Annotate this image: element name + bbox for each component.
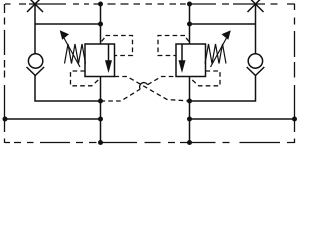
counterbalance valve CB2 body: [176, 44, 206, 77]
wire: left bottom branch: [5, 118, 101, 120]
node: left branch junction: [98, 117, 103, 122]
node: right tee: [187, 22, 192, 27]
CB1 pilot loop (dashed): [102, 36, 133, 56]
wire: left feed line: [100, 4, 102, 44]
pilot line P2 from left port to CB2 (dashed, with crossover hop): [101, 77, 177, 102]
CB2 pilot loop (dashed): [158, 36, 189, 56]
node: right bottom junction: [187, 140, 192, 145]
wire: right feed line: [189, 4, 191, 44]
plugged port X left: [27, 0, 43, 12]
CB2 flow path arrow: [179, 44, 186, 73]
wire: right bottom branch: [190, 118, 295, 120]
CB2 drain line (dashed): [190, 71, 220, 86]
wire: right port line upper: [255, 4, 257, 54]
node: left feed top: [98, 2, 103, 7]
CB1 spring: [65, 44, 86, 64]
wire: right outlet line: [189, 77, 191, 143]
node: left tee: [98, 22, 103, 27]
check valve CV2 seat: [247, 67, 265, 76]
CB1 flow path arrow: [105, 44, 112, 73]
wire: left port line lower: [35, 76, 101, 102]
node: left pilot junction: [98, 99, 103, 104]
enclosure dashed border left: [4, 4, 6, 143]
pilot line P1 from CB1 outlet to right port (dashed): [115, 77, 190, 102]
wire: left port line upper: [34, 4, 36, 54]
node: right border branch: [292, 117, 297, 122]
plugged port X right: [248, 0, 264, 12]
node: left border branch: [3, 117, 8, 122]
node: left bottom junction: [98, 140, 103, 145]
check valve CV1 ball: [28, 54, 42, 68]
enclosure dashed border bottom: [5, 142, 295, 144]
wire: left outlet line: [100, 77, 102, 143]
CB2 spring: [205, 44, 226, 64]
enclosure dashed border right: [294, 4, 296, 143]
check valve CV1 seat: [27, 67, 45, 76]
CB1 drain line (dashed): [71, 71, 101, 86]
node: right pilot junction: [187, 99, 192, 104]
check valve CV2 ball: [248, 54, 262, 68]
node: right feed top: [187, 2, 192, 7]
CB1 adjustment arrow: [60, 30, 80, 67]
enclosure dashed border top: [5, 4, 296, 143]
wire: left tee branch: [35, 23, 101, 25]
node: right branch junction: [187, 117, 192, 122]
counterbalance valve CB1 body: [85, 44, 115, 77]
CB2 adjustment arrow: [211, 30, 231, 67]
wire: right port line lower: [190, 76, 256, 102]
wire: right tee branch: [190, 23, 256, 25]
